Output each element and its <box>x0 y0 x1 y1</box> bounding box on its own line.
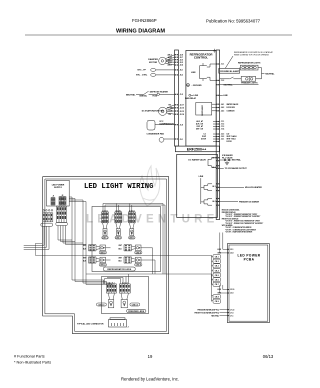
svg-text:AM-5: AM-5 <box>168 64 172 67</box>
svg-text:LED-1: LED-1 <box>102 238 107 240</box>
svg-text:LINE: LINE <box>191 72 196 74</box>
to ice maker output <box>220 167 224 169</box>
freezer module B <box>119 284 130 308</box>
dispenser sub-box <box>196 103 216 116</box>
svg-text:DC EVAPORATOR FAN: DC EVAPORATOR FAN <box>142 110 164 113</box>
tiny wire labels left of hmods <box>83 245 122 263</box>
svg-text:"CH OR 5" - FRESH FOOD THERMIS: "CH OR 5" - FRESH FOOD THERMISTOR "OPEN" <box>225 221 260 223</box>
svg-text:J4-1: J4-1 <box>212 185 215 188</box>
svg-text:COMPRESSOR: COMPRESSOR <box>159 123 174 125</box>
neutral bracket wire <box>256 68 265 79</box>
refrigerator LEDs enclosure <box>92 207 161 272</box>
long wire to CN stack 2 <box>86 273 212 275</box>
wires from block A down/left <box>24 226 49 249</box>
svg-text:REFRIGERATOR LIGHTS: REFRIGERATOR LIGHTS <box>238 62 261 65</box>
svg-text:"CH OR 5" - FREEZER THERMISTOR: "CH OR 5" - FREEZER THERMISTOR "OPEN" <box>225 214 258 216</box>
vertical LED module 1 <box>102 212 109 240</box>
svg-text:J1-2 J1-1: J1-2 J1-1 <box>109 282 115 284</box>
svg-text:TYPICAL LED CONNECTOR: TYPICAL LED CONNECTOR <box>77 322 104 325</box>
svg-text:REFRIGERATOR LEDS: REFRIGERATOR LEDS <box>107 268 131 271</box>
supply connector J1 <box>51 196 55 206</box>
svg-text:LED-C1: LED-C1 <box>98 305 104 307</box>
horizontal LED module row2 col1 <box>89 257 107 267</box>
circuit breaker bar CIR BRK BL ASMT <box>219 68 240 73</box>
svg-text:J1-2 J1-1: J1-2 J1-1 <box>102 210 108 212</box>
svg-text:Rendered by LeadVenture, Inc.: Rendered by LeadVenture, Inc. <box>121 377 179 382</box>
svg-text:CN-1: CN-1 <box>215 256 219 258</box>
svg-text:06/13: 06/13 <box>263 354 274 359</box>
CN connector stack 2 <box>212 274 221 303</box>
vertical LED module 2 <box>115 212 122 240</box>
horizontal LED module row2 col2 <box>124 257 142 267</box>
main relay <box>189 94 193 96</box>
svg-text:DISPENSER: DISPENSER <box>202 105 204 116</box>
svg-text:- GROUND: - GROUND <box>192 85 203 87</box>
svg-text:J1-2 J1-1: J1-2 J1-1 <box>129 210 135 212</box>
svg-text:J2-5: J2-5 <box>180 62 183 64</box>
svg-text:LINE: LINE <box>217 249 221 251</box>
vmod top labels <box>102 210 135 212</box>
svg-text:J2-16: J2-16 <box>180 108 184 110</box>
svg-text:WIRING DIAGRAM: WIRING DIAGRAM <box>116 29 165 35</box>
refrigerator control board box <box>186 51 216 147</box>
svg-text:DEF_CM: DEF_CM <box>196 129 204 131</box>
svg-text:J2-18: J2-18 <box>180 114 184 116</box>
svg-text:J4-2: J4-2 <box>212 200 215 203</box>
svg-text:WHT: WHT <box>119 257 122 259</box>
svg-text:YEL: YEL <box>168 105 171 107</box>
svg-text:"CH OR 5" - FRESH FOOD THERMIS: "CH OR 5" - FRESH FOOD THERMISTOR "SHORT… <box>225 223 263 225</box>
svg-text:LED-4: LED-4 <box>100 252 105 255</box>
svg-text:J: J <box>128 327 129 329</box>
svg-text:"CH OR 5" - FREEZER THERMISTOR: "CH OR 5" - FREEZER THERMISTOR "SHORTED" <box>225 216 261 218</box>
PCBA J7 wires <box>220 310 228 316</box>
svg-text:J1-2: J1-2 <box>221 80 224 82</box>
svg-text:HINGE COVER AT TOP OF DOOR OPE: HINGE COVER AT TOP OF DOOR OPENING <box>234 53 269 56</box>
svg-text:ERF2500++: ERF2500++ <box>187 148 206 152</box>
svg-text:CN-2: CN-2 <box>215 261 219 263</box>
svg-text:CN-7: CN-7 <box>215 284 219 286</box>
svg-text:J3-9: J3-9 <box>230 293 233 295</box>
svg-text:FGHN2866P: FGHN2866P <box>132 18 157 23</box>
freezer LEDs label pill <box>127 309 146 312</box>
svg-text:J7-4: J7-4 <box>221 128 224 131</box>
svg-text:FREEZER ICE MAKER: FREEZER ICE MAKER <box>239 200 260 203</box>
PCBA pin marks <box>227 249 229 316</box>
svg-text:J3-10: J3-10 <box>230 289 234 291</box>
svg-text:CONTROL: CONTROL <box>194 56 209 60</box>
line wire from board <box>220 94 223 96</box>
ground symbol control top <box>213 49 216 53</box>
refrigerator LEDs label pill <box>103 267 135 271</box>
svg-text:LINE: LINE <box>194 95 199 97</box>
wire note pointer <box>225 56 233 68</box>
svg-text:J2-4: J2-4 <box>180 64 183 67</box>
wires damper motor to strip <box>165 55 174 65</box>
svg-text:J2-8: J2-8 <box>230 253 233 255</box>
svg-text:DOOR: DOOR <box>227 141 233 143</box>
door switch on wire <box>220 77 242 79</box>
freezer module A pill <box>97 303 107 306</box>
freezer LEDs box <box>102 277 149 314</box>
horizontal LED module row1 col1 <box>89 245 107 255</box>
wires into freezer box top <box>72 280 112 285</box>
svg-text:FREEZER LIGHTS: FREEZER LIGHTS <box>241 83 258 85</box>
strip1 pin marks <box>175 54 178 139</box>
svg-text:DAMPER: DAMPER <box>148 58 158 61</box>
svg-text:MULLION HEATER: MULLION HEATER <box>245 186 262 189</box>
neutral wire from board <box>220 84 259 86</box>
svg-text:WATER VALVE: WATER VALVE <box>227 103 240 106</box>
ground symbol note <box>187 84 190 87</box>
svg-text:CN-4: CN-4 <box>215 269 219 272</box>
svg-text:NTC - FF: NTC - FF <box>138 70 147 72</box>
freezer ice maker wire <box>217 201 238 203</box>
horizontal LED module row1 col2 <box>124 245 142 255</box>
svg-text:J5-2: J5-2 <box>180 75 183 77</box>
LED power PCBA box double border <box>228 244 270 323</box>
svg-text:J7-10: J7-10 <box>230 309 234 311</box>
svg-text:MAIN RELAY: MAIN RELAY <box>185 97 197 100</box>
freezer module B pill <box>130 303 140 306</box>
svg-text:J2-1: J2-1 <box>230 249 233 251</box>
ERF2500 inverter header bar <box>175 146 219 152</box>
svg-text:FREEZER LEDS: FREEZER LEDS <box>128 311 144 313</box>
svg-text:J7-1: J7-1 <box>230 315 233 317</box>
svg-text:COMMON: COMMON <box>227 111 236 113</box>
svg-text:J7-9: J7-9 <box>230 312 233 314</box>
connector strip J-left <box>175 50 179 146</box>
svg-text:PCBA: PCBA <box>244 258 255 262</box>
svg-text:J1-8: J1-8 <box>180 125 183 127</box>
svg-text:CN-3: CN-3 <box>215 266 219 268</box>
aux pin rows <box>213 122 216 142</box>
svg-text:J3-1: J3-1 <box>212 157 215 159</box>
wires from block B to routing verticals <box>58 226 86 245</box>
svg-text:CONDENSER FAN: CONDENSER FAN <box>147 132 165 135</box>
svg-text:J1-5: J1-5 <box>180 94 183 96</box>
svg-text:TO ICE MAKER OUTPUT: TO ICE MAKER OUTPUT <box>225 167 248 170</box>
damper motor <box>159 55 175 65</box>
strip2 pin marks <box>217 63 220 205</box>
PCBA J2 pins <box>220 233 228 253</box>
freezer lights connector <box>220 76 256 81</box>
svg-text:J3-1: J3-1 <box>180 139 183 141</box>
header rule <box>25 34 292 36</box>
svg-text:WHT: WHT <box>119 245 122 247</box>
svg-text:CIR BRK BL ASMT: CIR BRK BL ASMT <box>220 70 240 73</box>
LED light wiring outer box (double border, stepped) <box>43 177 169 334</box>
svg-text:BIMETAL: BIMETAL <box>140 95 147 98</box>
svg-text:J4-2: J4-2 <box>221 106 224 109</box>
svg-text:J1: J1 <box>53 196 55 198</box>
svg-text:MOTOR: MOTOR <box>149 62 158 64</box>
svg-text:J1-2 J1-1: J1-2 J1-1 <box>115 210 121 212</box>
svg-text:WHT: WHT <box>83 245 86 247</box>
freezer module A <box>106 284 116 308</box>
wires right of hmods <box>106 248 156 274</box>
svg-text:J6-1: J6-1 <box>212 167 215 169</box>
svg-text:LEADVENTURE: LEADVENTURE <box>86 214 218 226</box>
ERF2500 inverter box <box>177 154 218 217</box>
svg-text:DEFROST HEATER: DEFROST HEATER <box>150 90 169 93</box>
svg-text:Publication No: 5995634077: Publication No: 5995634077 <box>206 19 261 24</box>
svg-text:DOOR SW: DOOR SW <box>227 107 236 109</box>
svg-text:LED-C2: LED-C2 <box>132 305 138 307</box>
svg-text:WHT: WHT <box>83 257 86 259</box>
svg-text:CN-8: CN-8 <box>215 296 219 298</box>
CN connector stack 1 <box>212 255 214 284</box>
wires above vertical modules <box>103 204 165 275</box>
control box interior: LINE sub-block <box>200 63 217 81</box>
svg-text:CN-6: CN-6 <box>215 280 219 282</box>
LED power supply box <box>47 180 70 206</box>
field connector block B below supply <box>56 197 113 285</box>
svg-text:J2-17: J2-17 <box>180 105 184 107</box>
svg-text:* Non-Illustrated Parts: * Non-Illustrated Parts <box>14 361 51 365</box>
svg-text:CN-9: CN-9 <box>215 301 219 303</box>
svg-text:CN-5: CN-5 <box>215 275 219 277</box>
connector strip J-right <box>216 50 219 220</box>
svg-text:COM: COM <box>168 111 173 113</box>
svg-text:NTC - CTRL: NTC - CTRL <box>136 75 148 77</box>
svg-text:NEUTRAL: NEUTRAL <box>126 93 136 96</box>
field connector block A below supply <box>24 210 212 256</box>
vertical LED module 3 <box>128 212 135 240</box>
PCBA J3 pins <box>220 285 228 293</box>
mullion heater wire <box>217 186 244 188</box>
freezer top loop wires <box>105 274 129 285</box>
svg-text:DOOR: DOOR <box>201 139 207 141</box>
svg-text:NEUTRAL: NEUTRAL <box>232 159 242 162</box>
svg-text:J5-1: J5-1 <box>180 70 183 72</box>
svg-text:LED LIGHT WIRING: LED LIGHT WIRING <box>84 183 154 191</box>
svg-text:J4-1: J4-1 <box>221 103 224 106</box>
svg-text:DC WATER VALVE: DC WATER VALVE <box>188 158 206 161</box>
svg-text:POWER: POWER <box>167 108 174 110</box>
svg-text:LINE: LINE <box>217 289 221 291</box>
svg-text:J2-15: J2-15 <box>180 111 184 113</box>
svg-text:# Functional Parts: # Functional Parts <box>14 355 45 359</box>
svg-text:LINE: LINE <box>223 95 228 97</box>
svg-text:J1-1: J1-1 <box>221 64 224 66</box>
svg-text:LINE: LINE <box>199 176 204 178</box>
svg-text:NEUTRAL: NEUTRAL <box>224 83 234 86</box>
module legend text block <box>222 209 264 234</box>
svg-text:NEUTRAL: NEUTRAL <box>265 72 275 75</box>
watermark <box>140 166 160 206</box>
svg-text:J2-1: J2-1 <box>221 139 224 141</box>
svg-text:19: 19 <box>148 354 153 359</box>
supply connector J2 <box>59 195 66 205</box>
svg-text:AM-1: AM-1 <box>168 61 172 64</box>
svg-text:J4-3: J4-3 <box>221 110 224 113</box>
svg-text:SUPPLY: SUPPLY <box>54 187 63 189</box>
